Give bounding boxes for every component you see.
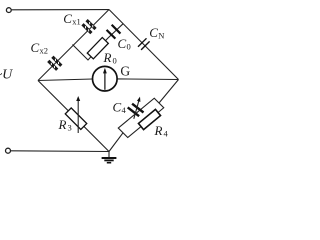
svg-text:0: 0 xyxy=(127,42,131,52)
wire bottom horizontal xyxy=(11,150,109,153)
wire upper-right diagonal (T to R) xyxy=(109,10,179,80)
svg-text:G: G xyxy=(120,64,130,79)
svg-text:C: C xyxy=(113,100,122,115)
svg-text:0: 0 xyxy=(113,56,117,66)
wire middle right (G to R) xyxy=(118,78,179,81)
resistor R0 xyxy=(87,38,108,59)
svg-text:R: R xyxy=(58,117,67,132)
svg-text:3: 3 xyxy=(68,123,72,133)
wire upper-left diagonal (L to T) xyxy=(38,10,109,81)
arrow through C4 xyxy=(134,100,139,119)
svg-text:R: R xyxy=(103,50,112,65)
wire middle left (L to G) xyxy=(38,79,93,81)
wire top horizontal xyxy=(11,9,109,11)
svg-text:~U: ~U xyxy=(0,67,13,82)
ground xyxy=(108,152,110,158)
capacitor Cx1 xyxy=(81,19,96,34)
galvanometer arrow xyxy=(104,72,106,90)
capacitor CN xyxy=(138,38,150,50)
resistor R3 xyxy=(65,108,86,129)
wire loop right corner to R xyxy=(159,80,179,104)
wire R0 branch: node A down to R0 and C0 up to junction J xyxy=(73,24,124,60)
capacitor C0 xyxy=(106,24,121,39)
galvanometer G circle xyxy=(93,66,118,91)
svg-text:C: C xyxy=(31,40,40,55)
svg-text:C: C xyxy=(118,36,127,51)
wire lower-left diagonal (L to B) xyxy=(38,81,109,152)
svg-text:C: C xyxy=(63,11,72,26)
loop parallelogram (C4 parallel R4) xyxy=(118,98,164,137)
resistor R4 xyxy=(138,109,160,129)
wire B to loop left corner xyxy=(109,133,123,152)
svg-text:x2: x2 xyxy=(40,46,49,56)
svg-text:R: R xyxy=(154,123,163,138)
arrow through R3 xyxy=(77,100,79,134)
svg-text:x1: x1 xyxy=(72,17,81,27)
svg-text:C: C xyxy=(149,25,158,40)
capacitor C4 (variable) xyxy=(128,104,144,117)
terminal bottom-left xyxy=(6,148,11,153)
capacitor Cx2 xyxy=(47,56,62,71)
svg-text:N: N xyxy=(158,31,164,41)
terminal top-left xyxy=(6,8,11,13)
